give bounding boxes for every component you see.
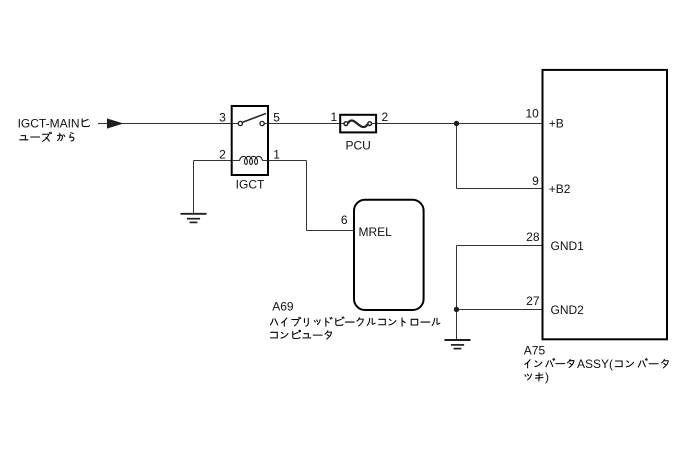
svg-text:5: 5 [273,110,280,124]
svg-text:1: 1 [273,147,280,161]
svg-text:ASSY(: ASSY( [577,357,613,371]
svg-text:A69: A69 [272,300,294,314]
svg-text:IGCT-MAIN: IGCT-MAIN [18,116,80,130]
svg-text:1: 1 [331,110,338,124]
svg-text:6: 6 [341,213,348,227]
svg-text:MREL: MREL [359,225,393,239]
svg-text:10: 10 [525,107,539,121]
svg-text:+B2: +B2 [549,182,571,196]
svg-text:PCU: PCU [346,139,371,153]
svg-text:3: 3 [219,110,226,124]
svg-text:GND2: GND2 [551,303,585,317]
svg-text:GND1: GND1 [551,239,585,253]
svg-text:2: 2 [382,110,389,124]
svg-text:IGCT: IGCT [236,178,265,192]
svg-text:): ) [545,370,549,384]
svg-text:+B: +B [549,117,564,131]
svg-text:27: 27 [526,294,540,308]
svg-text:A75: A75 [524,343,546,357]
svg-text:28: 28 [526,230,540,244]
svg-text:9: 9 [532,174,539,188]
svg-text:2: 2 [219,147,226,161]
